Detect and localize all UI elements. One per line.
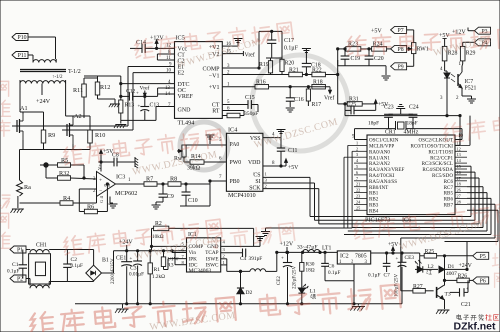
capacitor C10 <box>182 183 191 206</box>
svg-text:−: − <box>99 188 102 194</box>
capacitor C3 <box>133 250 142 304</box>
svg-text:COMP: COMP <box>202 67 220 73</box>
wire left end ground rail <box>74 303 76 305</box>
svg-text:C23: C23 <box>384 105 394 111</box>
capacitor C14 <box>130 44 157 53</box>
connector P10 <box>12 34 28 42</box>
svg-text:T3: T3 <box>445 292 451 298</box>
capacitor C4 391pF <box>221 249 246 257</box>
wire C1 pin8 <box>157 54 174 60</box>
label Vref -V2 pin15 <box>222 51 255 59</box>
wire MCLR run <box>345 110 460 145</box>
capacitor C23 <box>388 117 390 128</box>
svg-text:+: + <box>281 257 284 262</box>
svg-text:14: 14 <box>165 92 171 97</box>
wire COMP pin3 <box>222 67 259 69</box>
resistor R20 <box>280 58 284 75</box>
ground under C9 <box>152 202 164 209</box>
svg-text:A1: A1 <box>20 105 28 112</box>
svg-text:SI: SI <box>255 179 260 185</box>
connector P8 <box>391 45 407 53</box>
op-amp IC3 MCP602 <box>93 160 137 203</box>
resistor R22 <box>302 72 337 77</box>
resistor R25 <box>420 254 473 258</box>
wire +24V feed down <box>466 242 468 265</box>
svg-text:21: 21 <box>356 182 360 187</box>
resistor R15 on RT <box>222 111 244 118</box>
svg-text:CE3: CE3 <box>405 255 415 261</box>
common mode choke CH1 <box>29 249 58 288</box>
svg-text:+: + <box>99 178 102 184</box>
watermark red text row lower right <box>353 202 500 240</box>
svg-text:Vref: Vref <box>140 85 150 92</box>
svg-text:C12: C12 <box>126 89 136 95</box>
svg-text:C19: C19 <box>351 56 361 62</box>
wire C10 bottom <box>180 184 210 206</box>
svg-text:MC34063: MC34063 <box>189 268 212 274</box>
label +12V <box>280 242 294 254</box>
svg-text:1: 1 <box>356 140 358 145</box>
wire CS bus <box>263 177 310 216</box>
svg-text:T-1/2: T-1/2 <box>68 69 81 75</box>
watermark red text bottom big <box>29 296 236 332</box>
resistor R28 <box>442 46 447 61</box>
PIC left bus verticals <box>344 145 354 228</box>
feedback top wire <box>259 31 282 68</box>
svg-text:+24V: +24V <box>459 263 473 269</box>
resistor R19 <box>266 58 282 75</box>
junction dots misc <box>83 48 468 273</box>
resistor R29 <box>460 46 465 61</box>
svg-text:P10: P10 <box>17 35 26 41</box>
svg-text:2200µF/35V: 2200µF/35V <box>111 258 116 284</box>
resistor R30 <box>300 252 304 288</box>
svg-text:18pF: 18pF <box>407 121 418 127</box>
label +12V R29 <box>452 30 466 36</box>
resistor R2 <box>152 226 254 251</box>
resistor R10 <box>88 118 93 150</box>
watermark red text row middle right <box>443 114 500 143</box>
wire center tap +24V <box>41 84 43 96</box>
svg-text:0.1µF: 0.1µF <box>7 269 19 275</box>
wire R23 left vertical <box>338 49 346 75</box>
resistor R6 <box>79 184 107 214</box>
svg-text:R7: R7 <box>146 176 153 183</box>
capacitor C16 <box>269 86 295 107</box>
resistor R26 <box>443 278 472 283</box>
inductor LT1 <box>302 249 322 253</box>
wire L right to +12V node <box>266 252 338 271</box>
capacitor CE3 <box>396 252 407 304</box>
wire source rail <box>20 140 91 180</box>
resistor R13 <box>119 84 123 121</box>
label +12V <box>150 36 164 50</box>
svg-text:Ra: Ra <box>24 184 31 191</box>
resistor R23 <box>346 47 361 52</box>
wire AC into B1 <box>67 250 93 282</box>
transistor A1 <box>12 112 23 140</box>
ground below C20 <box>382 66 391 80</box>
svg-text:+5V: +5V <box>371 29 382 35</box>
logo dzkf bottom right <box>457 314 484 320</box>
svg-text:R21: R21 <box>289 68 299 74</box>
transformer secondary winding <box>20 81 66 84</box>
connector P4 <box>475 39 491 47</box>
svg-text:ISWE: ISWE <box>206 256 219 262</box>
wire P4 to R29 <box>463 42 475 46</box>
svg-text:CH1: CH1 <box>36 243 47 249</box>
wire RB6 loop <box>401 204 495 238</box>
watermark red seal ring center <box>180 122 228 170</box>
potentiometer RW1 <box>407 30 416 66</box>
wire IC1 pin8 <box>175 251 187 265</box>
svg-text:+: + <box>136 92 139 97</box>
wire R11 R12 top rail <box>84 76 121 78</box>
svg-text:IC4: IC4 <box>228 127 237 134</box>
LED L2 red <box>415 260 438 273</box>
svg-text:7805: 7805 <box>355 254 367 260</box>
resistor R24 <box>361 47 391 52</box>
svg-text:PA0: PA0 <box>230 142 240 148</box>
svg-text:P5: P5 <box>480 254 486 260</box>
svg-text:C1: C1 <box>12 262 19 268</box>
resistor R12 <box>95 76 100 99</box>
svg-text:C9: C9 <box>167 194 174 200</box>
wire C19 C20 bottom <box>338 60 386 66</box>
connector P2 <box>10 275 26 283</box>
wire P10 to choke <box>28 37 56 59</box>
connector P11 <box>12 52 28 60</box>
svg-text:R22: R22 <box>312 68 322 74</box>
svg-text:C10: C10 <box>188 198 198 204</box>
PIC bottom-left wires and ground <box>261 228 352 236</box>
wire +V1 R16 rail <box>222 86 255 88</box>
svg-text:P1: P1 <box>17 248 23 254</box>
ground center <box>350 304 365 311</box>
svg-text:L2: L2 <box>428 264 434 270</box>
ground DTC network <box>114 120 126 128</box>
capacitor C1 <box>19 250 27 279</box>
wire ISWE ISWC join <box>221 259 250 272</box>
bridge rectifier B1 <box>86 265 102 281</box>
svg-text:TCAP: TCAP <box>205 250 218 256</box>
capacitor C9 <box>159 183 168 202</box>
watermark red text row lower <box>63 218 222 256</box>
svg-text:Vref: Vref <box>324 95 334 102</box>
potentiometer Rw <box>177 145 186 162</box>
wire R2 right down <box>253 228 255 246</box>
capacitor C7 <box>383 252 391 272</box>
svg-text:C4: C4 <box>240 256 247 262</box>
svg-text:P2: P2 <box>17 277 23 283</box>
svg-text:IC5: IC5 <box>176 35 185 42</box>
ground opto emitter <box>462 96 476 103</box>
wire winding ends <box>33 59 56 63</box>
svg-text:0.1µF: 0.1µF <box>284 46 299 52</box>
svg-text:R10: R10 <box>95 132 105 139</box>
svg-text:11: 11 <box>166 56 171 61</box>
wire opamp V+ supply <box>100 155 102 172</box>
svg-text:P521: P521 <box>465 86 477 92</box>
svg-text:C21: C21 <box>461 302 471 308</box>
wire IC1 pin6 vin <box>172 251 187 253</box>
wire P11 to choke <box>28 55 33 59</box>
svg-text:+24V: +24V <box>36 98 51 105</box>
svg-text:C7: C7 <box>384 273 391 279</box>
junction dots bottom rail <box>126 303 356 305</box>
svg-text:IC7: IC7 <box>465 79 474 85</box>
svg-text:R13: R13 <box>125 103 135 109</box>
svg-text:0.1µF: 0.1µF <box>71 263 83 269</box>
wire secondary right end to A2 drain <box>66 80 71 116</box>
svg-text:P7: P7 <box>398 28 404 34</box>
svg-text:26: 26 <box>457 188 461 193</box>
wire PA0 <box>184 144 226 146</box>
resistor R27 <box>401 289 434 294</box>
wire P3 feed <box>468 28 475 31</box>
svg-text:P6: P6 <box>480 279 486 285</box>
resistor R1 <box>148 250 152 304</box>
wire C2 pin11 <box>157 59 174 61</box>
svg-text:E2: E2 <box>178 71 185 77</box>
svg-text:C20: C20 <box>374 56 384 62</box>
ground above C18 <box>302 49 311 54</box>
svg-text:MCP602: MCP602 <box>115 190 137 197</box>
svg-text:23: 23 <box>356 194 360 199</box>
wire P1 to CH1 <box>26 249 29 251</box>
IC4 MCP41010 body <box>226 127 263 199</box>
wire crystal row <box>355 128 463 130</box>
svg-text:4007: 4007 <box>446 271 457 277</box>
IC1 MC34063 body <box>187 232 221 272</box>
wire OSC1 <box>355 129 368 140</box>
svg-text:R17: R17 <box>312 102 322 108</box>
capacitor C20 <box>365 48 374 66</box>
resistor Ra zigzag <box>17 180 23 196</box>
svg-text:SCK: SCK <box>249 185 261 191</box>
ground above IC4 PA0 <box>206 135 215 144</box>
ground under C16 <box>286 108 295 112</box>
ground under T3 <box>436 310 449 314</box>
wire B1 output to +24V rail <box>102 251 187 273</box>
svg-text:P8: P8 <box>398 47 404 53</box>
svg-text:CE2: CE2 <box>277 276 282 285</box>
transformer T-1/2 core <box>20 70 66 72</box>
svg-text:C6: C6 <box>328 264 335 270</box>
wire opamp output <box>116 183 145 185</box>
svg-text:R6: R6 <box>87 204 94 211</box>
connector P7 <box>371 26 407 34</box>
svg-text:LT1: LT1 <box>322 246 332 252</box>
connector P3 <box>475 27 491 35</box>
wire SCK bus <box>263 189 319 224</box>
label +24V at D1 <box>456 263 473 269</box>
resistor R3 <box>161 251 165 267</box>
wire T3 emitter to ground <box>443 299 446 309</box>
watermark right edge vertical chars <box>493 232 500 247</box>
wire R29 to opto collector <box>461 61 464 66</box>
ground IC1 GND pin <box>221 237 265 247</box>
capacitor C19 <box>341 48 350 66</box>
resistor R5 <box>46 163 84 178</box>
svg-text:R8: R8 <box>170 176 177 183</box>
svg-text:R1: R1 <box>154 267 161 273</box>
svg-text:↑-1/2: ↑-1/2 <box>52 75 63 80</box>
watermark red text bottom right big <box>259 283 401 320</box>
svg-text:R32: R32 <box>59 170 69 177</box>
svg-text:RB4: RB4 <box>369 208 379 214</box>
wire A1 drain node <box>20 112 44 118</box>
svg-text:CE1: CE1 <box>116 256 126 262</box>
svg-text:C16: C16 <box>294 97 304 103</box>
svg-text:R12: R12 <box>100 84 110 91</box>
connector P5 <box>473 252 489 260</box>
svg-text:0.1µF: 0.1µF <box>328 270 340 276</box>
wire VDD pin8 +5V <box>263 159 288 167</box>
wire PB0 <box>210 181 226 206</box>
wire Vcc pin12 <box>157 47 175 49</box>
svg-text:R2: R2 <box>155 221 162 227</box>
watermark red text row top <box>134 21 293 59</box>
label +5V at R31 <box>362 100 389 110</box>
svg-text:P9: P9 <box>398 65 404 71</box>
svg-text:6: 6 <box>356 170 358 175</box>
svg-text:220µF/25V: 220µF/25V <box>293 265 298 289</box>
capacitor C15 on CT <box>222 100 258 112</box>
wire LED branch left <box>419 256 421 270</box>
svg-text:PW0: PW0 <box>230 160 242 166</box>
svg-text:R26: R26 <box>458 274 468 280</box>
svg-text:33~47µF: 33~47µF <box>297 245 318 251</box>
svg-text:R9: R9 <box>48 132 55 139</box>
wire DTC pin4 <box>121 83 175 85</box>
LED L1 green <box>298 284 308 304</box>
svg-text:R27: R27 <box>413 284 423 290</box>
ground under Ra <box>10 209 23 213</box>
svg-text:DZkf.net: DZkf.net <box>454 321 497 332</box>
watermark red text row lower mid <box>207 222 295 251</box>
connector P9 <box>391 63 407 71</box>
wire T3 collector node <box>444 256 446 281</box>
label Vref above C13 <box>140 85 150 97</box>
svg-text:5: 5 <box>356 164 358 169</box>
svg-text:RW1: RW1 <box>417 47 429 53</box>
ground under R12 <box>98 99 121 107</box>
wire RB7 loop <box>445 210 499 241</box>
svg-text:12: 12 <box>457 146 461 151</box>
wire left rail down <box>18 150 20 209</box>
svg-text:D2: D2 <box>246 290 253 296</box>
svg-text:G 4: G 4 <box>99 196 104 203</box>
capacitor CE1 <box>126 251 128 262</box>
svg-text:0.01µF: 0.01µF <box>129 272 144 278</box>
wire P2 to CH1 <box>26 278 29 280</box>
wire secondary left end to A1 drain <box>19 80 21 112</box>
wire RB5 loop <box>344 198 491 234</box>
wire +5V to R25 <box>414 253 420 256</box>
capacitor C8 <box>100 158 132 167</box>
bus wire to PIC RC3 <box>310 166 471 216</box>
connector P6 <box>473 277 489 285</box>
svg-text:IC2: IC2 <box>340 254 349 260</box>
svg-text:IPK: IPK <box>189 256 198 262</box>
resistor R14 <box>184 160 226 165</box>
svg-text:RB7: RB7 <box>444 203 454 209</box>
optocoupler IC7 P521 <box>440 61 477 101</box>
wire E1 gate run <box>12 67 175 127</box>
svg-text:PB0: PB0 <box>230 179 240 185</box>
svg-text:16: 16 <box>457 170 461 175</box>
main ground rail <box>75 303 402 305</box>
svg-text:GND: GND <box>178 108 192 114</box>
wire RC0 up <box>469 116 471 146</box>
wire to R27 base feed <box>400 238 402 291</box>
svg-text:+5V: +5V <box>288 165 299 171</box>
capacitor C12 <box>120 92 146 100</box>
svg-text:CS: CS <box>253 173 260 179</box>
label Vref at R18 <box>312 87 334 102</box>
diode D1 4007 <box>439 266 456 272</box>
IC5 TL494 body <box>175 35 223 127</box>
svg-text:22: 22 <box>356 188 360 193</box>
svg-text:28: 28 <box>457 199 461 204</box>
IC6 PIC16F73 body <box>365 135 455 224</box>
transistor A2 <box>62 116 73 144</box>
svg-text:D1: D1 <box>448 264 455 270</box>
svg-text:+: + <box>466 286 469 291</box>
capacitor C6 <box>321 251 329 280</box>
resistor R9 <box>41 118 46 150</box>
connector P1 <box>10 246 26 254</box>
svg-text:+12V: +12V <box>280 242 294 248</box>
resistor R4 <box>20 189 97 205</box>
wire GND pin7 <box>156 107 175 121</box>
svg-text:B1: B1 <box>102 258 109 264</box>
IC2 7805 body <box>337 251 370 265</box>
svg-text:2: 2 <box>356 146 358 151</box>
resistor R32 <box>46 176 97 181</box>
capacitor C21 <box>450 280 469 296</box>
svg-text:IC3: IC3 <box>116 174 125 181</box>
inductor primary winding <box>33 60 56 63</box>
svg-text:13: 13 <box>457 152 461 157</box>
svg-text:+: + <box>138 105 141 110</box>
svg-text:R18: R18 <box>313 80 323 86</box>
resistor R7 <box>144 182 157 187</box>
bus wire to PIC RC5 <box>319 178 479 224</box>
wire RC6 loop <box>352 187 483 228</box>
svg-text:7: 7 <box>356 176 358 181</box>
capacitor C17 <box>267 30 276 58</box>
wire 7805 gnd pin2 <box>325 264 354 304</box>
resistor R8 <box>157 182 210 187</box>
watermark red text row top right <box>347 28 500 56</box>
wire 7805 out +5V rail <box>371 252 414 254</box>
svg-text:1.2kΩ: 1.2kΩ <box>152 274 165 280</box>
svg-text:P11: P11 <box>18 53 27 59</box>
svg-text:VDD: VDD <box>248 160 261 166</box>
wire A2 drain node <box>66 116 90 118</box>
svg-text:25: 25 <box>356 205 360 210</box>
diode D2 <box>237 270 244 304</box>
svg-text:R25: R25 <box>425 249 435 255</box>
svg-text:+: + <box>396 257 399 262</box>
label +24V rail <box>119 240 133 252</box>
resistor R16 <box>255 84 269 89</box>
svg-text:+: + <box>130 257 133 262</box>
svg-text:R29: R29 <box>466 51 476 57</box>
ground above C11 <box>277 130 286 134</box>
